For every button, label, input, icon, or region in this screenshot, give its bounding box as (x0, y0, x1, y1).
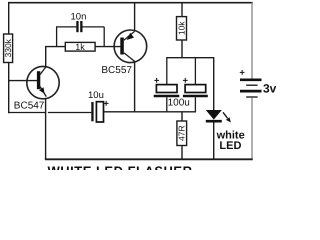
svg-text:+: + (103, 98, 109, 109)
svg-text:330k: 330k (3, 38, 13, 57)
svg-text:+: + (239, 67, 245, 78)
capacitor C4 100u right (183, 58, 208, 113)
wire Q1 base (8, 80, 37, 82)
svg-text:WHITE LED FLASHER: WHITE LED FLASHER (48, 164, 193, 171)
wire bottom rail (0v) (45, 158, 253, 160)
transistor Q2 BC557 (114, 30, 147, 63)
wire Q1 emitter vertical to ground rail (45, 99, 47, 160)
svg-text:+: + (183, 76, 189, 87)
LED D1 white (206, 58, 222, 160)
svg-text:LED: LED (219, 140, 241, 152)
wire Q1 collector vertical (45, 47, 47, 68)
capacitor C1 10n (56, 21, 104, 47)
wire left vertical (rail to R1) (8, 2, 10, 35)
wire Q2 emitter vertical to rail (134, 3, 136, 31)
wire top rail (+3v) (8, 2, 253, 4)
svg-text:BC547: BC547 (14, 100, 45, 111)
svg-text:3v: 3v (263, 81, 277, 95)
resistor R4 47R (177, 112, 187, 160)
wire collector row to R2 (45, 46, 65, 48)
battery BT1 3v (239, 3, 261, 160)
transistor Q1 BC547 (27, 66, 59, 98)
resistor R1 330k (4, 34, 13, 63)
resistor R2 1k (65, 42, 95, 51)
resistor R3 10k (177, 3, 187, 58)
svg-text:BC557: BC557 (101, 65, 132, 76)
svg-text:10k: 10k (177, 21, 187, 35)
svg-text:100u: 100u (168, 98, 190, 109)
svg-text:10u: 10u (88, 90, 104, 101)
capacitor C2 10u (8, 98, 109, 122)
wire mid bus (Q2 collector node) (104, 111, 196, 113)
svg-text:47R: 47R (177, 125, 187, 141)
svg-text:1k: 1k (75, 42, 85, 52)
wire left vertical (R1 to C2 row) (8, 63, 10, 114)
svg-text:10n: 10n (71, 12, 87, 23)
wire Q2 base (95, 46, 120, 48)
wire Q2 collector vertical (134, 61, 136, 112)
svg-text:+: + (154, 76, 160, 87)
capacitor C3 100u left (154, 58, 180, 113)
annotation arrow to LED (223, 112, 231, 122)
wire top distribution (caps + node to LED) (166, 57, 214, 59)
